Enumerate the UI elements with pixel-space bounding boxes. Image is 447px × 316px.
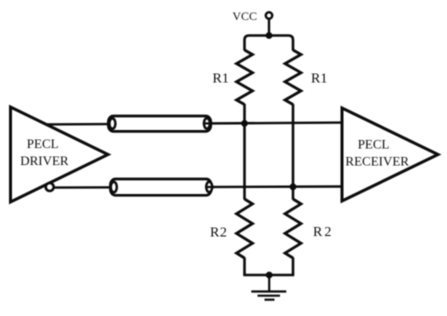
resistor R2 right xyxy=(285,199,333,258)
ground xyxy=(251,292,286,300)
op-amp U2 PECL receiver triangle xyxy=(342,108,438,201)
svg-text:VCC: VCC xyxy=(232,9,257,23)
inversion bubble on driver output xyxy=(46,183,54,191)
op-amp U1 PECL driver triangle xyxy=(11,107,109,202)
wire left R2 bottom lead xyxy=(243,258,246,276)
wire VCC stem xyxy=(268,20,270,36)
node B: junction dot bottom line / right pull-up xyxy=(290,183,297,190)
wire bottom signal line xyxy=(53,187,342,188)
svg-text:RECEIVER: RECEIVER xyxy=(345,154,409,169)
resistor R1 right xyxy=(285,50,327,105)
resistor R2 left xyxy=(210,199,253,258)
svg-text:PECL: PECL xyxy=(358,137,390,152)
transmission line T2 (bottom) xyxy=(110,179,215,195)
wire VCC branch rail with pull-up leads xyxy=(245,36,294,51)
svg-text:R2: R2 xyxy=(210,226,227,241)
transmission line T1 (top) xyxy=(108,116,213,131)
wire top signal line xyxy=(45,123,342,125)
svg-text:R1: R1 xyxy=(213,72,229,87)
VCC terminal xyxy=(232,9,272,23)
wire ground rail xyxy=(243,274,294,277)
svg-text:R1: R1 xyxy=(311,72,327,87)
node A: junction dot top line / left pull-up xyxy=(241,120,248,127)
wire right vertical R1 to R2 xyxy=(292,104,295,200)
wire ground stub xyxy=(268,275,270,292)
node ground junction dot xyxy=(266,272,273,279)
svg-text:DRIVER: DRIVER xyxy=(20,153,69,168)
svg-text:PECL: PECL xyxy=(27,136,59,151)
svg-text:R2: R2 xyxy=(313,225,333,240)
resistor R1 left xyxy=(213,50,253,105)
node VCC branch junction dot xyxy=(266,32,273,39)
wire left vertical R1 to R2 xyxy=(243,104,246,200)
wire right R2 bottom lead xyxy=(292,258,295,276)
